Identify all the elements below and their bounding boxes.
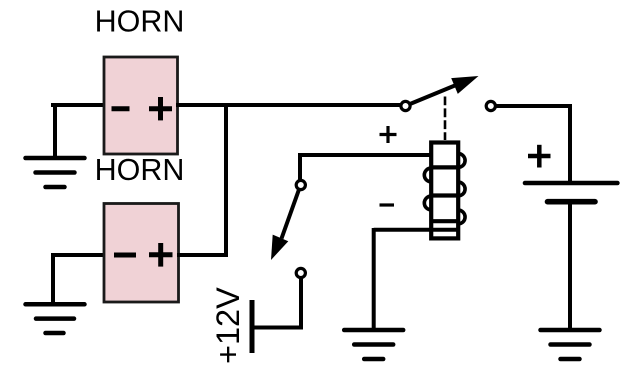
wire vertical to ground G1 — [53, 103, 57, 158]
battery BT1 positive plate — [525, 181, 617, 186]
wire from H1 plus to switch SW1 — [176, 103, 400, 107]
horn H1 body — [104, 57, 178, 154]
ground G4 — [541, 330, 600, 359]
relay coil K1 winding layer bars — [431, 167, 458, 229]
horn H2 body — [104, 204, 179, 303]
wire vertical to ground G2 — [51, 253, 55, 304]
relay coil K1 winding loops — [424, 154, 465, 224]
wire from SW1 right contact to battery — [496, 104, 570, 108]
wire down to switch SW2 contact — [298, 153, 302, 180]
switch SW2 bottom contact — [296, 268, 305, 277]
wire left stub to horn H1 — [51, 103, 106, 107]
switch SW1 blade — [410, 85, 457, 104]
label + (relay coil positive) — [380, 126, 397, 143]
horn H2 minus terminal label — [114, 253, 136, 258]
wire relay coil plus lead — [298, 153, 433, 157]
wire from SW2 bottom contact down — [299, 278, 303, 328]
switch SW2 blade arrowhead — [271, 235, 288, 260]
wire relay coil minus lead — [374, 228, 433, 232]
svg-text:+12V: +12V — [210, 287, 246, 364]
horn H1 plus terminal label — [149, 97, 172, 120]
switch SW1 blade arrowhead — [451, 76, 478, 94]
wire battery to ground G4 — [568, 205, 572, 331]
dashed link from blade to relay coil — [444, 97, 447, 141]
wire down to ground G3 — [372, 228, 376, 330]
ground G3 — [344, 330, 403, 359]
svg-text:HORN: HORN — [95, 153, 185, 187]
+12V terminal bar — [250, 300, 255, 353]
horn H2 plus terminal label — [149, 243, 173, 267]
switch SW2 blade — [282, 190, 299, 239]
wire vertical down to battery BT1 — [568, 104, 572, 183]
switch SW1 right contact — [486, 101, 495, 110]
label - (relay coil negative) — [380, 203, 395, 206]
ground G1 — [26, 158, 85, 187]
svg-text:HORN: HORN — [95, 5, 185, 39]
wire from H2 plus to junction — [177, 253, 228, 257]
relay coil K1 body — [431, 143, 458, 239]
ground G2 — [26, 304, 85, 333]
switch SW2 top contact — [296, 180, 305, 189]
wire left stub to horn H2 — [51, 253, 106, 257]
battery BT1 plus label — [528, 145, 551, 168]
battery BT1 negative plate — [548, 199, 596, 205]
horn H1 minus terminal label — [112, 106, 130, 111]
wire to +12V terminal — [252, 326, 303, 330]
wire junction vertical from top bus down to H2 plus — [224, 103, 228, 255]
switch SW1 left contact — [401, 101, 410, 110]
